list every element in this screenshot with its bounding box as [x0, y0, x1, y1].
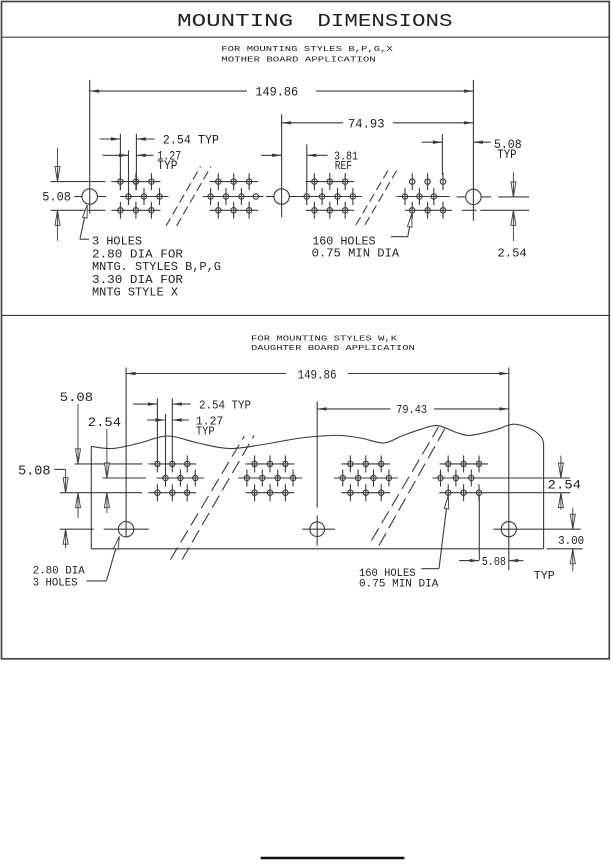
- svg-text:5.08: 5.08: [60, 390, 93, 405]
- svg-text:3.00: 3.00: [558, 535, 584, 548]
- svg-text:MOTHER BOARD APPLICATION: MOTHER BOARD APPLICATION: [221, 56, 375, 64]
- svg-text:0.75 MIN DIA: 0.75 MIN DIA: [312, 246, 400, 260]
- svg-text:2.54 TYP: 2.54 TYP: [163, 133, 219, 147]
- svg-text:2.54: 2.54: [548, 479, 581, 493]
- svg-text:FOR MOUNTING STYLES W,K: FOR MOUNTING STYLES W,K: [251, 335, 398, 343]
- svg-text:2.54: 2.54: [497, 246, 526, 260]
- svg-text:DIMENSIONS: DIMENSIONS: [317, 11, 452, 32]
- svg-text:2.54 TYP: 2.54 TYP: [199, 399, 251, 413]
- svg-text:5.08: 5.08: [482, 556, 506, 569]
- svg-text:79.43: 79.43: [396, 403, 427, 417]
- svg-text:0.75 MIN DIA: 0.75 MIN DIA: [359, 579, 439, 591]
- svg-text:5.08: 5.08: [42, 191, 71, 205]
- svg-text:5.08: 5.08: [18, 464, 50, 479]
- svg-text:TYP: TYP: [497, 148, 516, 162]
- svg-text:FOR MOUNTING STYLES B,P,G,X: FOR MOUNTING STYLES B,P,G,X: [221, 46, 393, 54]
- svg-text:MNTG STYLE X: MNTG STYLE X: [92, 286, 178, 300]
- svg-text:2.80 DIA: 2.80 DIA: [33, 566, 85, 578]
- svg-text:TYP: TYP: [196, 425, 215, 439]
- svg-text:REF: REF: [335, 159, 352, 173]
- svg-text:74.93: 74.93: [348, 117, 385, 131]
- svg-text:TYP: TYP: [157, 159, 177, 173]
- svg-text:2.54: 2.54: [88, 415, 121, 430]
- svg-text:149.86: 149.86: [255, 86, 298, 100]
- svg-text:DAUGHTER BOARD APPLICATION: DAUGHTER BOARD APPLICATION: [251, 345, 415, 353]
- svg-text:MOUNTING: MOUNTING: [177, 11, 293, 32]
- svg-text:TYP: TYP: [534, 570, 555, 583]
- svg-text:149.86: 149.86: [298, 369, 337, 383]
- svg-text:3 HOLES: 3 HOLES: [33, 578, 78, 590]
